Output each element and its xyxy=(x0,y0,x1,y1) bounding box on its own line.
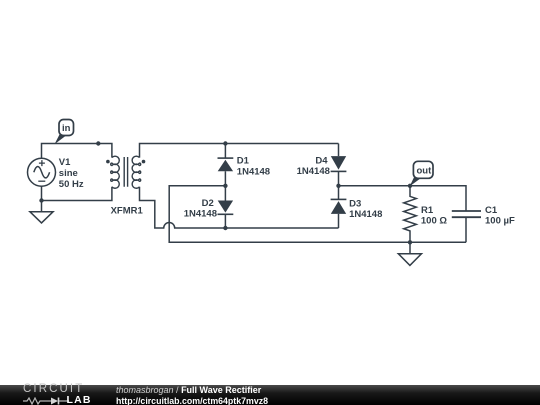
wire XFMR1 primary bottom to V1 bottom xyxy=(42,186,112,200)
capacitor C1 xyxy=(452,211,481,242)
node V1 bottom junction xyxy=(39,198,43,202)
svg-text:D2: D2 xyxy=(202,198,214,209)
svg-text:V1: V1 xyxy=(59,157,71,168)
wire V1 top to XFMR1 primary top xyxy=(42,144,112,159)
svg-text:D4: D4 xyxy=(315,155,328,166)
logo LAB xyxy=(67,394,92,405)
svg-text:100 µF: 100 µF xyxy=(485,216,515,227)
nodename flag out xyxy=(410,161,433,186)
diode D4 xyxy=(331,144,347,186)
svg-text:XFMR1: XFMR1 xyxy=(111,205,144,216)
label XFMR1 xyxy=(111,205,144,216)
svg-text:100 Ω: 100 Ω xyxy=(421,216,447,227)
voltage source V1 xyxy=(28,158,56,186)
node out at R1 top xyxy=(408,184,412,188)
label D2 1N4148 xyxy=(184,198,217,219)
node D2 cathode on secondary-bottom rail xyxy=(223,226,227,230)
diode D1 xyxy=(218,144,234,186)
svg-text:sine: sine xyxy=(59,168,78,179)
label D3 1N4148 xyxy=(349,199,382,220)
label C1 100uF xyxy=(485,205,515,227)
wire XFMR1 secondary top to bridge top rail xyxy=(140,144,339,158)
footer title line xyxy=(116,385,261,395)
svg-text:1N4148: 1N4148 xyxy=(237,167,270,178)
label V1 value xyxy=(59,157,84,190)
wire bridge output to R1 and C1 top xyxy=(339,186,467,211)
footer url line xyxy=(116,396,268,405)
svg-text:C1: C1 xyxy=(485,205,498,216)
svg-text:50 Hz: 50 Hz xyxy=(59,179,84,190)
svg-text:D1: D1 xyxy=(237,156,250,167)
node D1 anode on top rail xyxy=(223,141,227,145)
svg-text:D3: D3 xyxy=(349,199,361,210)
svg-text:1N4148: 1N4148 xyxy=(184,209,217,220)
node D3 cathode / D4 anode junction xyxy=(336,184,340,188)
ground at R1 xyxy=(398,242,421,265)
wire XFMR1 secondary bottom with hop over midleft wire xyxy=(140,187,339,228)
resistor R1 xyxy=(404,186,417,243)
label R1 100 ohm xyxy=(421,205,447,227)
transformer XFMR1 xyxy=(106,156,145,188)
diode D2 xyxy=(218,186,234,228)
logo CIRCUIT xyxy=(23,383,84,395)
node D1 cathode / D2 anode junction xyxy=(223,184,227,188)
node R1 bottom junction xyxy=(408,240,412,244)
svg-text:out: out xyxy=(417,165,433,176)
diode D3 xyxy=(331,186,347,228)
label D1 1N4148 xyxy=(237,156,270,178)
svg-text:1N4148: 1N4148 xyxy=(349,209,382,220)
svg-text:in: in xyxy=(62,123,71,134)
nodename flag in xyxy=(55,120,74,145)
ground at V1 xyxy=(30,201,53,223)
wire midleft: D1/D2 junction to bottom rail xyxy=(169,186,466,243)
svg-text:R1: R1 xyxy=(421,205,434,216)
footer bar xyxy=(0,385,540,405)
label D4 1N4148 xyxy=(297,155,330,177)
svg-text:1N4148: 1N4148 xyxy=(297,166,330,177)
logo waveform glyph xyxy=(23,397,69,405)
node on top-left wire xyxy=(96,141,100,145)
